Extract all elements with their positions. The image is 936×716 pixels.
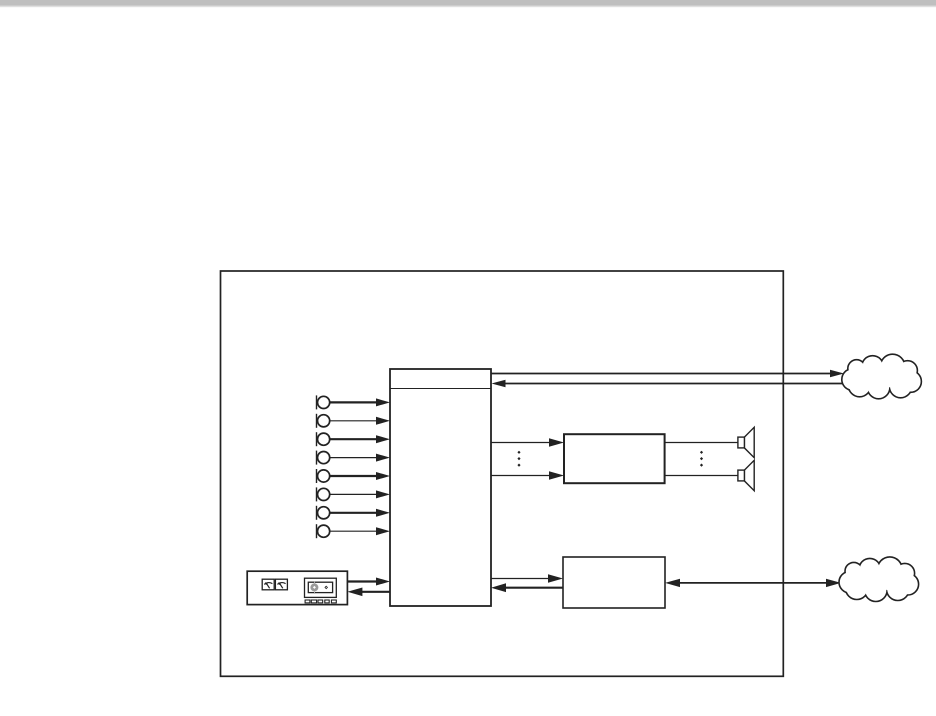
wire mic8 to main unit xyxy=(330,527,390,535)
wire mic3 to main unit xyxy=(330,435,390,443)
wire mic2 to main unit xyxy=(330,417,390,425)
wire mic1 to main unit xyxy=(330,398,390,406)
small hub diamond xyxy=(324,586,328,590)
interface box (bottom) xyxy=(563,557,665,608)
wire main unit to amp (lower) xyxy=(491,471,564,480)
reel knob xyxy=(310,581,318,594)
ellipsis dots (amp inputs) xyxy=(517,451,520,467)
wire main unit to amp (upper) xyxy=(491,438,564,447)
wire main unit to top cloud (outgoing) xyxy=(491,370,844,378)
main unit header divider line xyxy=(390,388,491,390)
wire device to main unit xyxy=(347,578,390,586)
bottom network cloud xyxy=(840,558,918,601)
wire mic4 to main unit xyxy=(330,454,390,462)
wire main unit to interface box xyxy=(491,574,563,583)
wire main unit to device xyxy=(347,588,390,597)
wire amp to speaker 2 xyxy=(665,475,738,477)
speaker SP1 xyxy=(738,427,754,457)
wire mic5 to main unit xyxy=(330,472,390,480)
cassette window outer xyxy=(305,578,337,597)
wire mic7 to main unit xyxy=(330,509,390,517)
main unit (mixer/exchange) box xyxy=(390,369,491,606)
amplifier box xyxy=(564,434,665,483)
microphone M4 xyxy=(317,451,330,465)
microphone M6 xyxy=(317,487,330,501)
wire interface box to bottom cloud (double arrow) xyxy=(665,579,841,587)
button row xyxy=(305,600,336,603)
system boundary box xyxy=(221,271,784,676)
header gray bar xyxy=(0,0,936,8)
wire interface box to main unit xyxy=(491,583,563,592)
wire amp to speaker 1 xyxy=(665,442,738,444)
microphone M8 xyxy=(317,524,330,538)
microphone M1 xyxy=(317,395,330,409)
speaker SP2 xyxy=(738,460,754,490)
wire mic6 to main unit xyxy=(330,490,390,498)
microphone M5 xyxy=(317,469,330,483)
ellipsis dots (speaker lines) xyxy=(700,451,703,467)
top network cloud xyxy=(843,355,921,398)
microphone M2 xyxy=(317,414,330,428)
microphone M7 xyxy=(317,506,330,520)
level meter 1 xyxy=(262,579,274,590)
sound source device chassis xyxy=(247,571,347,604)
level meter 2 xyxy=(275,579,287,590)
wire top cloud to main unit (incoming) xyxy=(492,380,845,388)
cassette window inner xyxy=(308,582,332,592)
microphone M3 xyxy=(317,432,330,446)
